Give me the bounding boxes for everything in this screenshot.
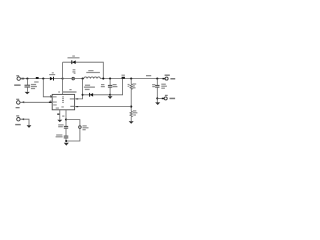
wire ground stub below C2 (109, 95, 111, 97)
ground symbol below C2 (108, 96, 113, 99)
connector J3 (GND output) (164, 97, 167, 100)
net label VOUT at J2 (170, 78, 175, 80)
wire rail from L1 to output connector (100, 78, 165, 80)
capacitor C2 labels (101, 84, 118, 87)
node junction COMP node (65, 119, 67, 121)
pin names bottom inside U1 (53, 104, 64, 108)
connector J3 label (165, 95, 168, 96)
pin numbers left side outside U1 (50, 95, 52, 102)
ground symbol below U1 (57, 120, 62, 122)
pin number COMP pin (62, 116, 64, 117)
diode D3 label (84, 85, 95, 91)
node junction feedback tap (130, 106, 132, 108)
pin stub marker J3 (162, 98, 164, 100)
ground symbol below C1 (25, 92, 30, 94)
capacitor C4 labels (58, 124, 63, 127)
node junction switch node (82, 78, 84, 80)
diode D1 label (49, 72, 55, 75)
op IC U1 body (52, 94, 74, 109)
net label GND at J3 (170, 98, 176, 100)
wire boot branch vertical (75, 79, 83, 99)
inductor L1 label (86, 70, 100, 73)
net label above rail tag (122, 75, 125, 76)
ground symbol below R2 (129, 121, 134, 123)
wire U1 GND stub (59, 110, 61, 120)
node junction output connector tap (156, 78, 158, 80)
capacitor C2 (output cap) (108, 85, 112, 87)
wire COMP loop right branch lower (66, 128, 80, 141)
diode D3 (catch diode, pointing left) (90, 93, 94, 97)
resistor R1 labels (128, 83, 137, 88)
connector J5 (GND input) (17, 118, 24, 121)
node junction at D3 cathode (82, 94, 84, 96)
wire U1 COMP stub (65, 110, 67, 120)
wire vertical from top rail through node to U1 VIN pin (62, 62, 64, 94)
node junction feedback divider top (130, 78, 132, 80)
op IC U1 reference label (58, 89, 76, 93)
test point TP1 (circle in rail) (72, 77, 75, 80)
connector J4 label (16, 99, 19, 100)
wire top boost rail (63, 62, 104, 78)
capacitor C1 (input bulk cap) (25, 85, 31, 87)
connector J1 label (16, 75, 19, 76)
wire C1 stem upper (26, 79, 28, 85)
wire COMP chain vertical (65, 120, 67, 127)
node junction top rail join (102, 78, 104, 80)
capacitor C1 value label (31, 84, 37, 89)
pin stub marker BOOT pin (76, 98, 78, 99)
net label VOUT above rail (146, 75, 151, 76)
node junction ground node (109, 94, 111, 96)
node junction at EN branch tap (42, 78, 44, 80)
wire EN from J4 to U1 (20, 101, 52, 103)
resistor R1 (divider top) (130, 84, 132, 90)
wire from node through D3 to ground node (83, 94, 111, 96)
diode D2 label (68, 56, 80, 59)
capacitor C5 labels (152, 84, 167, 89)
wire C2 stem upper (109, 79, 111, 86)
pin stub marker upper left pin (50, 96, 52, 97)
wire from J5 to ground (20, 119, 29, 125)
pin names left side inside U1 (53, 96, 57, 102)
wire C5 stem lower (156, 87, 158, 102)
test point TP2 circle in loop (79, 126, 82, 129)
net label GND below J5 (15, 124, 21, 125)
connector J2 label (165, 75, 170, 76)
ground symbol below output ground node (155, 102, 160, 105)
wire EN upper branch vertical to U1 pin (43, 79, 52, 97)
wire comp chain to ground node (65, 138, 67, 141)
connector J1 (VIN input) (17, 77, 24, 80)
wire C1 stem lower (26, 87, 28, 92)
capacitor C4 (comp cap 1) (64, 126, 68, 128)
pin stub marker FB pin (76, 106, 78, 107)
wire rail from node to L1 (63, 78, 84, 80)
node junction at C1 tap (26, 78, 28, 80)
test point TP1 labels (72, 69, 75, 74)
pin number GND pin (57, 113, 59, 115)
net label VIN (14, 84, 20, 86)
diode D1 (series input diode) (50, 77, 54, 81)
capacitor C6 (comp cap 2) (64, 136, 69, 138)
net tag bold on rail (122, 77, 125, 79)
wire COMP loop right branch (66, 120, 80, 126)
capacitor C5 (second output cap) (155, 85, 159, 87)
wire divider vertical middle (130, 89, 132, 111)
resistor R2 (divider bottom) (130, 111, 132, 117)
wire to J3 (157, 97, 164, 99)
wire C2 stem lower (109, 87, 111, 95)
wire between comp caps (65, 128, 67, 136)
wire FB from U1 to divider tap (75, 106, 132, 108)
net flag tag on VIN rail (34, 77, 38, 83)
ground symbol below J5 wire (27, 125, 32, 128)
wire C5 stem upper (156, 79, 158, 86)
wire divider vertical lower (130, 117, 132, 122)
node junction VIN pin node (62, 78, 64, 80)
capacitor C6 labels (56, 134, 63, 137)
wire divider vertical upper (130, 79, 132, 84)
inductor L1 (84, 77, 101, 79)
node junction comp ground (65, 140, 67, 142)
pin name VIN inside U1 top (62, 96, 64, 102)
ground symbol below comp chain (64, 143, 69, 146)
connector J4 (enable input) (17, 101, 25, 105)
connector J2 (VOUT) (163, 77, 169, 80)
connector J5 label (16, 115, 19, 116)
pin names right side inside U1 (70, 98, 74, 107)
wire VIN rail from J1 to D1 anode (20, 78, 50, 80)
node junction output cap top (109, 78, 111, 80)
net label below J4 (16, 107, 20, 108)
wire D1 cathode to node (54, 78, 63, 80)
resistor R2 labels (133, 110, 138, 115)
wire link from ground node to rail tag (110, 79, 123, 95)
diode D2 (top rail, pointing left) (72, 60, 76, 64)
node junction output ground (156, 97, 158, 99)
pin stub marker EN pin (49, 102, 52, 103)
test point TP2 labels (83, 125, 89, 130)
